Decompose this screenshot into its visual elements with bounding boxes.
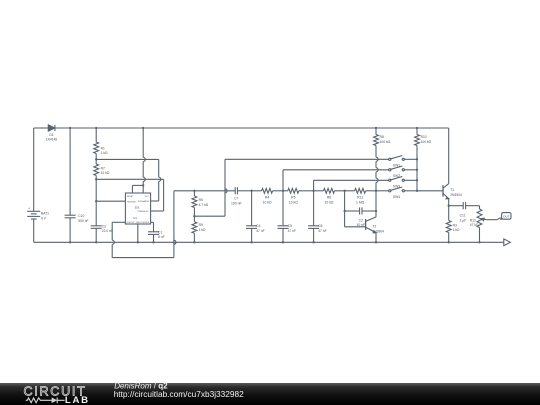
- switch SW2: [389, 166, 417, 171]
- wire top supply rail: [34, 127, 449, 129]
- node R1 R7 junction: [95, 158, 97, 160]
- pin label DISCHARGE: [138, 200, 150, 203]
- node divider tap: [193, 215, 195, 217]
- label C5 47nF: [288, 224, 296, 233]
- node C4 top: [250, 190, 252, 192]
- svg-text:C7: C7: [234, 197, 238, 201]
- pin label GND: [136, 222, 141, 224]
- svg-text:C6: C6: [318, 224, 322, 228]
- pin label TRIGGER: [127, 201, 136, 203]
- node T1 emitter: [448, 205, 450, 207]
- svg-text:LAB: LAB: [65, 395, 90, 405]
- svg-text:555: 555: [135, 206, 140, 210]
- svg-text:RESET: RESET: [127, 196, 134, 198]
- svg-text:47 nF: 47 nF: [318, 229, 326, 233]
- svg-text:R3: R3: [453, 223, 457, 227]
- label R6b 10k: [325, 196, 334, 205]
- svg-text:+: +: [28, 207, 30, 211]
- logo resistor squiggle and diode: [26, 398, 65, 404]
- pin label VCC: [145, 196, 150, 198]
- svg-text:R6: R6: [199, 198, 203, 202]
- label C1 8nF: [158, 230, 165, 239]
- node SW4 to T1 base: [416, 190, 418, 192]
- switch SW4: [389, 187, 417, 192]
- label C10 500nF: [78, 214, 88, 223]
- diode D1: [48, 125, 55, 131]
- wire R7 bottom to threshold: [96, 179, 163, 211]
- resistor R6 second: [314, 188, 345, 193]
- label R4 10k: [263, 196, 272, 205]
- label R1 1k: [101, 146, 108, 155]
- svg-text:BAT1: BAT1: [41, 212, 49, 216]
- label 555: [135, 206, 140, 210]
- svg-text:SW4: SW4: [393, 195, 400, 199]
- capacitor C2: [345, 207, 376, 214]
- pin label CONTROL: [140, 222, 149, 224]
- svg-text:R11: R11: [357, 196, 363, 200]
- svg-text:C3: C3: [102, 224, 106, 228]
- label R10 100k: [421, 135, 432, 144]
- wire reset vcc tie: [132, 185, 143, 193]
- svg-text:T1: T1: [450, 188, 454, 192]
- resistor R8: [374, 128, 379, 191]
- node reset vcc tie: [142, 184, 144, 186]
- svg-text:10 kΩ: 10 kΩ: [101, 171, 110, 175]
- capacitor C7: [235, 187, 251, 194]
- svg-text:1 kΩ: 1 kΩ: [101, 151, 108, 155]
- resistor R6: [192, 191, 197, 216]
- node C6 bottom: [312, 241, 314, 243]
- label R3 1k: [453, 223, 460, 232]
- svg-text:D1: D1: [49, 133, 53, 137]
- label C3 22nF: [102, 224, 113, 233]
- svg-text:R4: R4: [265, 196, 269, 200]
- svg-text:C10: C10: [78, 214, 84, 218]
- node C5 bottom: [282, 241, 284, 243]
- footer bar: [0, 383, 540, 405]
- node SW3 to R10: [416, 179, 418, 181]
- label SW3: [393, 184, 400, 188]
- resistor R4: [252, 188, 283, 193]
- svg-text:R6: R6: [327, 196, 331, 200]
- node R11 right: [375, 190, 377, 192]
- svg-text:R1: R1: [101, 146, 105, 150]
- svg-text:TRIGGER: TRIGGER: [127, 201, 136, 203]
- svg-text:OUT: OUT: [503, 214, 510, 218]
- svg-text:2N3904: 2N3904: [372, 229, 384, 233]
- svg-text:C4: C4: [256, 224, 260, 228]
- node VCC top: [142, 127, 144, 129]
- node SW2 to R10: [416, 169, 418, 171]
- node C10 top: [69, 127, 71, 129]
- resistor R7: [94, 159, 99, 179]
- op-amp U1 555 timer box: [125, 193, 150, 224]
- node R11 left: [343, 190, 345, 192]
- label R8 100k: [380, 135, 391, 144]
- label C4 47nF: [256, 224, 264, 233]
- svg-text:1 µF: 1 µF: [460, 218, 467, 222]
- capacitor C6: [308, 191, 319, 243]
- resistor R1: [94, 128, 99, 159]
- svg-text:U1: U1: [133, 216, 137, 220]
- resistor R11: [345, 188, 376, 193]
- svg-text:R5: R5: [291, 196, 295, 200]
- wire wiper to OUT: [487, 218, 501, 220]
- node R9 bottom: [193, 241, 195, 243]
- node SW1 to R10: [416, 158, 418, 160]
- svg-text:10 kΩ: 10 kΩ: [289, 200, 298, 204]
- wire node3 to SW3: [314, 180, 389, 191]
- flag OUT: [501, 213, 511, 220]
- node R10 top: [416, 127, 418, 129]
- svg-text:R9: R9: [199, 223, 203, 227]
- wire signal line: [174, 190, 235, 192]
- label R7 10k: [101, 166, 110, 175]
- svg-text:1 MΩ: 1 MΩ: [356, 200, 365, 204]
- capacitor C5: [278, 191, 289, 243]
- capacitor C10: [65, 128, 76, 242]
- svg-text:C2: C2: [359, 218, 363, 222]
- switch SW1: [389, 156, 417, 161]
- svg-text:1 kΩ: 1 kΩ: [199, 228, 206, 232]
- svg-text:DISCHARGE: DISCHARGE: [138, 200, 150, 203]
- pin label THRESHOLD: [137, 211, 149, 213]
- svg-text:THRESHOLD: THRESHOLD: [137, 211, 149, 213]
- label SW4: [393, 195, 400, 199]
- svg-text:100 nF: 100 nF: [231, 201, 242, 205]
- node R3 bottom: [448, 241, 450, 243]
- label R12 47k: [470, 218, 479, 227]
- svg-text:R8: R8: [380, 135, 384, 139]
- wire output loop: [112, 191, 176, 258]
- capacitor C1: [148, 232, 159, 243]
- wire VCC supply drop: [143, 128, 145, 185]
- svg-text:47 nF: 47 nF: [256, 229, 264, 233]
- svg-text:500 nF: 500 nF: [78, 219, 88, 223]
- node C6 top: [312, 190, 314, 192]
- wire R7 to trigger column: [96, 179, 125, 201]
- svg-text:OUTPUT: OUTPUT: [127, 222, 136, 224]
- label R6 4.7k: [199, 198, 209, 207]
- label R11 1M: [356, 196, 365, 205]
- node T2 emitter ground: [375, 241, 377, 243]
- svg-text:C5: C5: [288, 224, 292, 228]
- node C4 bottom: [250, 241, 252, 243]
- transistor T2 2N3904: [345, 191, 376, 243]
- label R5 10k: [289, 196, 298, 205]
- svg-text:R7: R7: [101, 166, 105, 170]
- wire node2 to SW2: [283, 170, 389, 191]
- svg-text:8 nF: 8 nF: [158, 235, 165, 239]
- svg-text:9 V: 9 V: [41, 216, 47, 220]
- label C6 47nF: [318, 224, 326, 233]
- wire R1-R7 junction to discharge: [96, 159, 161, 201]
- svg-text:R12: R12: [470, 218, 476, 222]
- svg-text:T2: T2: [372, 225, 376, 229]
- capacitor C4: [246, 191, 257, 243]
- node R1 top: [95, 127, 97, 129]
- pin label RESET: [127, 196, 134, 198]
- svg-text:C1: C1: [158, 230, 162, 234]
- node C3 bottom: [95, 241, 97, 243]
- node R6 top: [193, 190, 195, 192]
- ground reference arrow: [504, 239, 511, 246]
- node C1 bottom: [152, 241, 154, 243]
- pin label OUTPUT: [127, 222, 136, 224]
- resistor R3: [446, 206, 451, 243]
- svg-text:10 kΩ: 10 kΩ: [325, 200, 334, 204]
- node C5 top: [282, 190, 284, 192]
- svg-text:47 nF: 47 nF: [288, 229, 296, 233]
- node R7 bottom: [95, 178, 97, 180]
- svg-text:R10: R10: [421, 135, 427, 139]
- label T2 2N3904: [372, 225, 384, 234]
- node R12 bottom: [478, 241, 480, 243]
- node GND pin bottom: [137, 241, 139, 243]
- wire SW4 row continues from signal: [376, 190, 389, 192]
- potentiometer R12: [477, 206, 482, 243]
- node trigger junction: [95, 200, 97, 202]
- svg-text:C11: C11: [460, 214, 466, 218]
- svg-text:100 kΩ: 100 kΩ: [380, 140, 391, 144]
- node R8 top: [375, 127, 377, 129]
- svg-text:47 kΩ: 47 kΩ: [470, 223, 479, 227]
- wire GND pin: [137, 224, 139, 242]
- label R9 1k: [199, 223, 206, 232]
- label C7 100nF: [231, 197, 242, 206]
- wire CONTROL to C1: [151, 222, 154, 232]
- switch SW3: [389, 177, 417, 182]
- label SW1: [393, 163, 400, 167]
- wire T1 base: [417, 190, 443, 192]
- label BAT1 9V: [41, 212, 49, 221]
- svg-text:1N4148: 1N4148: [46, 138, 57, 142]
- label SW2: [393, 174, 400, 178]
- svg-text:CONTROL: CONTROL: [140, 222, 149, 224]
- label T1 2N3904: [450, 188, 462, 197]
- svg-text:22.0 nF: 22.0 nF: [102, 229, 113, 233]
- svg-text:100 kΩ: 100 kΩ: [421, 140, 432, 144]
- wiper arrow R12: [481, 218, 486, 221]
- label C2 10nF: [356, 218, 365, 227]
- wire divider tap to SW1: [194, 159, 388, 216]
- svg-text:1 kΩ: 1 kΩ: [453, 228, 460, 232]
- transistor T1 2N3904: [443, 128, 449, 206]
- label U1: [133, 216, 137, 220]
- capacitor C11: [449, 202, 480, 209]
- label D1 1N4148: [46, 133, 57, 141]
- node C2 left: [343, 210, 345, 212]
- wire node4 down: [344, 191, 346, 227]
- node C2 right: [375, 210, 377, 212]
- svg-text:VCC: VCC: [145, 196, 150, 198]
- svg-text:10 kΩ: 10 kΩ: [263, 200, 272, 204]
- battery BAT1: [27, 128, 40, 242]
- resistor R9: [192, 216, 197, 242]
- capacitor C3: [91, 201, 102, 242]
- svg-text:4.7 kΩ: 4.7 kΩ: [199, 203, 209, 207]
- resistor R5: [283, 188, 314, 193]
- svg-text:2N3904: 2N3904: [450, 193, 462, 197]
- label C11 1uF: [460, 214, 467, 223]
- resistor R10: [415, 128, 420, 191]
- node C10 bottom: [69, 241, 71, 243]
- svg-text:http://circuitlab.com/cu7xb3j3: http://circuitlab.com/cu7xb3j332982: [114, 389, 244, 399]
- wire bottom ground rail: [34, 241, 504, 243]
